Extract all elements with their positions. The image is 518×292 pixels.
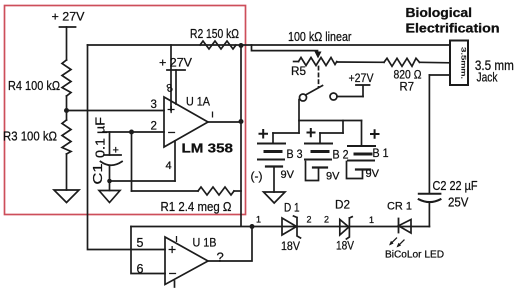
jack 3.5mm xyxy=(450,41,468,86)
svg-text:2: 2 xyxy=(324,215,329,225)
svg-text:−: − xyxy=(168,124,176,140)
battery B1 xyxy=(347,146,376,179)
svg-text:R5: R5 xyxy=(291,64,306,78)
pin stub U1B bottom xyxy=(174,281,176,287)
svg-text:−: − xyxy=(169,265,177,281)
node U1A output xyxy=(239,119,244,124)
wire top rail xyxy=(88,44,451,46)
wire jack bottom xyxy=(429,74,450,76)
svg-text:9V: 9V xyxy=(366,168,380,180)
wire C1 to pin4 xyxy=(110,180,176,182)
svg-text:U 1B: U 1B xyxy=(193,236,217,250)
wire to B1 top xyxy=(361,121,363,147)
svg-text:R1 2.4 meg Ω: R1 2.4 meg Ω xyxy=(161,199,232,214)
ground under C1 xyxy=(99,191,120,203)
node output top xyxy=(239,43,244,48)
svg-text:100 kΩ linear: 100 kΩ linear xyxy=(288,29,352,44)
svg-text:(-): (-) xyxy=(251,169,263,183)
wire R4 to node xyxy=(66,96,68,120)
svg-text:BiCoLor LED: BiCoLor LED xyxy=(385,250,444,261)
op-amp U1B xyxy=(165,237,208,285)
svg-text:D2: D2 xyxy=(335,200,350,212)
svg-text:1: 1 xyxy=(256,215,261,225)
svg-text:+: + xyxy=(167,101,175,117)
pin tick U1B xyxy=(176,236,178,242)
svg-text:0.1 µF: 0.1 µF xyxy=(94,117,108,158)
svg-text:U 1A: U 1A xyxy=(186,95,210,109)
svg-text:+: + xyxy=(168,241,176,257)
resistor R1 xyxy=(198,187,234,195)
node C1 bottom xyxy=(107,179,112,184)
battery plus signs xyxy=(259,128,380,139)
wire U1B pin6 drop xyxy=(131,227,165,274)
potentiometer R5 wiper arrow xyxy=(315,52,322,59)
svg-text:9V: 9V xyxy=(326,171,340,183)
wire to R1 xyxy=(132,190,199,192)
ground under B3 xyxy=(264,192,286,203)
svg-text:LM 358: LM 358 xyxy=(182,141,234,156)
pin tick U1A xyxy=(212,112,214,118)
svg-text:4: 4 xyxy=(166,160,172,172)
battery B2 xyxy=(305,144,332,181)
power +27V rail top-left xyxy=(60,27,76,60)
node divider midpoint xyxy=(64,108,69,113)
svg-text:Biological: Biological xyxy=(406,5,473,20)
wire B3 top stub xyxy=(272,133,274,144)
potentiometer R5 body xyxy=(294,58,337,66)
svg-text:2: 2 xyxy=(307,215,312,225)
svg-text:B 2: B 2 xyxy=(333,150,349,162)
capacitor C2 xyxy=(419,75,441,227)
svg-text:3.5mm.: 3.5mm. xyxy=(460,47,466,80)
title Biological Electrification xyxy=(406,5,500,36)
svg-text:9V: 9V xyxy=(281,169,295,181)
node pin2 junction xyxy=(129,130,134,135)
wire divider to pin3 xyxy=(67,110,165,112)
wire R7 to jack xyxy=(420,61,451,64)
svg-text:R3 100 kΩ: R3 100 kΩ xyxy=(3,129,57,144)
svg-text:+27V: +27V xyxy=(349,71,374,85)
svg-text:25V: 25V xyxy=(448,196,469,210)
svg-text:R4 100 kΩ: R4 100 kΩ xyxy=(8,78,60,93)
svg-text:R2 150 kΩ: R2 150 kΩ xyxy=(190,27,239,41)
svg-text:5: 5 xyxy=(137,236,144,250)
svg-text:6: 6 xyxy=(137,262,144,276)
wire pin2 xyxy=(103,131,164,133)
svg-text:Electrification: Electrification xyxy=(406,21,500,36)
svg-text:C2 22 µF: C2 22 µF xyxy=(433,179,478,193)
wire switch pole down xyxy=(298,100,300,134)
op-amp U1A xyxy=(164,97,208,147)
wire to B3 top xyxy=(273,132,299,134)
svg-text:Jack: Jack xyxy=(477,70,498,85)
wire output vertical xyxy=(240,45,242,226)
zener D1 xyxy=(282,216,301,238)
svg-text:2: 2 xyxy=(151,121,157,133)
svg-text:+ 27V: + 27V xyxy=(52,10,85,24)
LED arrows xyxy=(389,238,404,248)
wire to B2 top xyxy=(320,132,343,134)
svg-text:18V: 18V xyxy=(281,241,300,253)
wire pin2 down to R1 xyxy=(131,132,133,191)
svg-text:D 1: D 1 xyxy=(284,203,300,215)
LED CR1 xyxy=(399,219,412,234)
wire wiper feed xyxy=(252,45,318,52)
wire U1B output xyxy=(208,227,252,262)
red annotation rectangle xyxy=(5,6,246,215)
wire R5 to R7 xyxy=(337,61,384,63)
wire R2 to pin3 xyxy=(170,45,172,111)
switch S1 xyxy=(300,86,338,102)
svg-text:+ 27V: + 27V xyxy=(159,56,192,70)
ground under R3 xyxy=(54,190,79,203)
power +27V at switch xyxy=(337,85,370,97)
wire reference vertical to U1B pin5 xyxy=(88,45,166,250)
svg-text:?: ? xyxy=(217,250,224,265)
svg-text:C1: C1 xyxy=(91,163,105,184)
svg-text:R7: R7 xyxy=(400,80,415,94)
wire bottom rail xyxy=(131,226,429,228)
capacitor C1 xyxy=(101,132,123,191)
pin 4 stub U1A xyxy=(174,141,176,181)
wire B2 branch xyxy=(342,121,344,134)
svg-text:3: 3 xyxy=(151,99,157,111)
resistor R2 xyxy=(200,41,236,49)
battery B3 xyxy=(258,144,285,193)
resistor R7 xyxy=(384,58,420,66)
resistor R4 xyxy=(62,60,71,96)
wire B2 top stub xyxy=(319,133,321,144)
zener D2 xyxy=(340,217,352,239)
wire R1 to output xyxy=(234,190,241,192)
wire U1A output xyxy=(208,121,241,123)
resistor R3 xyxy=(62,120,71,154)
svg-text:B 3: B 3 xyxy=(287,149,303,161)
svg-text:18V: 18V xyxy=(336,241,354,253)
svg-text:1: 1 xyxy=(369,215,374,225)
wire battery feed horizontal xyxy=(299,120,362,122)
svg-text:+: + xyxy=(113,145,119,157)
mechanical link pot to switch xyxy=(318,67,320,88)
node rail junction xyxy=(250,224,255,229)
wire R3 to ground xyxy=(66,154,68,190)
power +27V U1A pin8 xyxy=(167,70,185,104)
svg-text:B 1: B 1 xyxy=(373,148,389,160)
svg-text:CR 1: CR 1 xyxy=(387,201,412,213)
